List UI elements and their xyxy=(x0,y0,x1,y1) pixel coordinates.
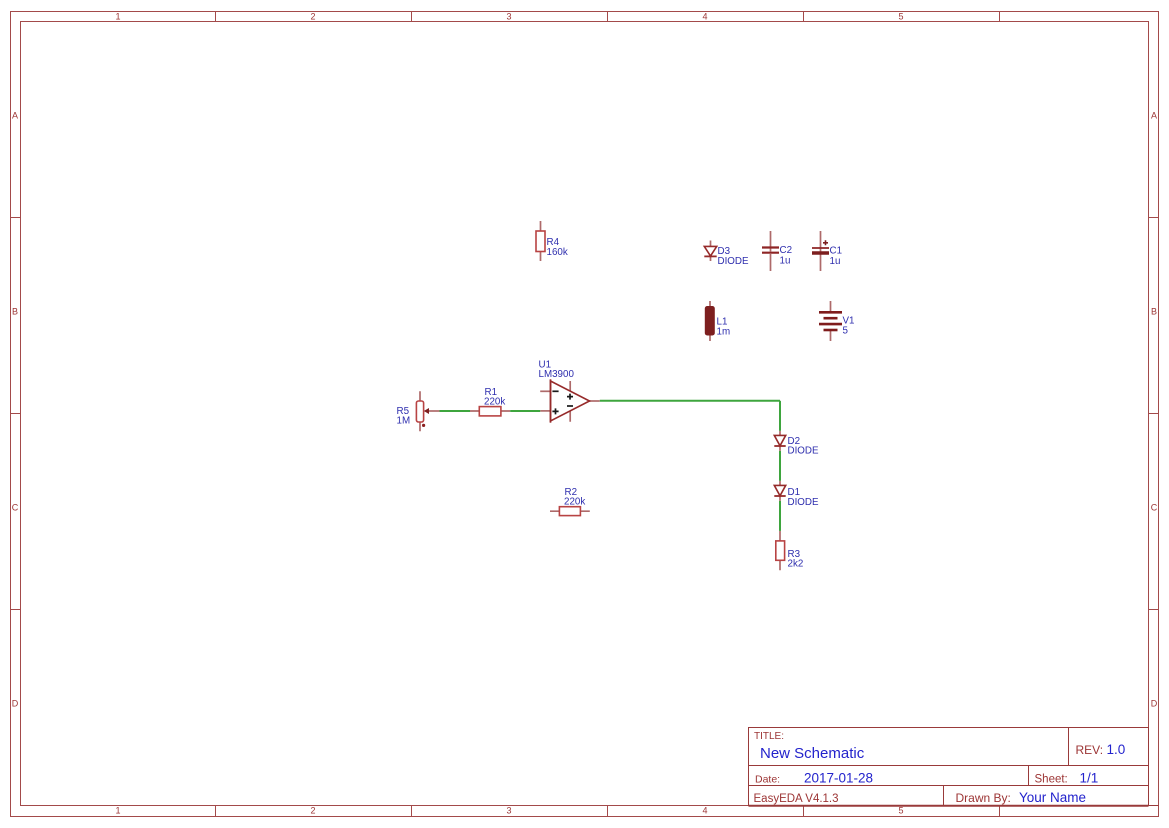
resistor R2 xyxy=(550,487,590,516)
svg-text:2: 2 xyxy=(310,806,315,816)
svg-text:2017-01-28: 2017-01-28 xyxy=(804,771,873,786)
svg-text:Drawn By:: Drawn By: xyxy=(956,791,1011,805)
capacitor C2 xyxy=(762,231,792,271)
inductor L1 xyxy=(705,301,730,341)
capacitor C1 (polarized) xyxy=(812,231,842,271)
svg-text:3: 3 xyxy=(506,12,511,22)
wire D1 to R3 xyxy=(779,501,781,531)
svg-text:DIODE: DIODE xyxy=(718,256,749,267)
svg-text:1.0: 1.0 xyxy=(1107,742,1126,757)
diode D2 xyxy=(774,431,819,457)
title block xyxy=(749,728,1159,806)
wire vertical to D2 xyxy=(779,401,781,431)
svg-text:Date:: Date: xyxy=(755,773,780,785)
svg-text:A: A xyxy=(1151,111,1157,121)
wire R1 to U1 input xyxy=(510,410,540,412)
wire R5 to R1 xyxy=(440,410,471,412)
svg-text:1m: 1m xyxy=(717,326,731,337)
potentiometer R5 xyxy=(397,391,440,431)
svg-text:220k: 220k xyxy=(564,497,585,508)
svg-text:5: 5 xyxy=(843,326,849,337)
svg-text:1/1: 1/1 xyxy=(1080,771,1099,786)
diode D1 xyxy=(774,481,819,508)
svg-text:5: 5 xyxy=(898,12,903,22)
svg-text:B: B xyxy=(12,307,18,317)
svg-text:TITLE:: TITLE: xyxy=(754,731,784,742)
svg-text:2k2: 2k2 xyxy=(788,559,804,570)
svg-text:160k: 160k xyxy=(547,247,568,258)
wire U1 output horizontal xyxy=(600,400,780,402)
svg-text:DIODE: DIODE xyxy=(788,446,819,457)
svg-text:EasyEDA V4.1.3: EasyEDA V4.1.3 xyxy=(754,793,839,805)
svg-text:4: 4 xyxy=(702,12,707,22)
svg-text:1u: 1u xyxy=(780,256,791,267)
op-amp U1 xyxy=(539,360,600,423)
svg-text:C: C xyxy=(12,503,19,513)
svg-text:DIODE: DIODE xyxy=(788,497,819,508)
svg-text:1: 1 xyxy=(115,12,120,22)
svg-text:A: A xyxy=(12,111,18,121)
resistor R3 xyxy=(776,531,803,570)
svg-text:REV:: REV: xyxy=(1076,743,1104,757)
svg-text:C2: C2 xyxy=(780,245,793,256)
svg-text:Your Name: Your Name xyxy=(1019,790,1086,805)
svg-text:2: 2 xyxy=(310,12,315,22)
svg-text:4: 4 xyxy=(702,806,707,816)
svg-text:220k: 220k xyxy=(484,397,505,408)
svg-text:1: 1 xyxy=(115,806,120,816)
svg-text:5: 5 xyxy=(898,806,903,816)
svg-text:New Schematic: New Schematic xyxy=(760,745,865,762)
resistor R1 xyxy=(470,387,510,416)
svg-text:D: D xyxy=(12,699,19,709)
wire D2 to D1 xyxy=(779,451,781,481)
svg-text:B: B xyxy=(1151,307,1157,317)
svg-text:D: D xyxy=(1151,699,1158,709)
svg-text:3: 3 xyxy=(506,806,511,816)
svg-text:1M: 1M xyxy=(397,416,411,427)
svg-text:C1: C1 xyxy=(830,245,843,256)
svg-text:C: C xyxy=(1151,503,1158,513)
resistor R4 xyxy=(536,221,568,261)
svg-text:Sheet:: Sheet: xyxy=(1035,773,1068,785)
svg-text:LM3900: LM3900 xyxy=(539,369,575,380)
diode D3 xyxy=(704,241,749,268)
svg-text:1u: 1u xyxy=(830,256,841,267)
battery V1 xyxy=(819,301,854,341)
